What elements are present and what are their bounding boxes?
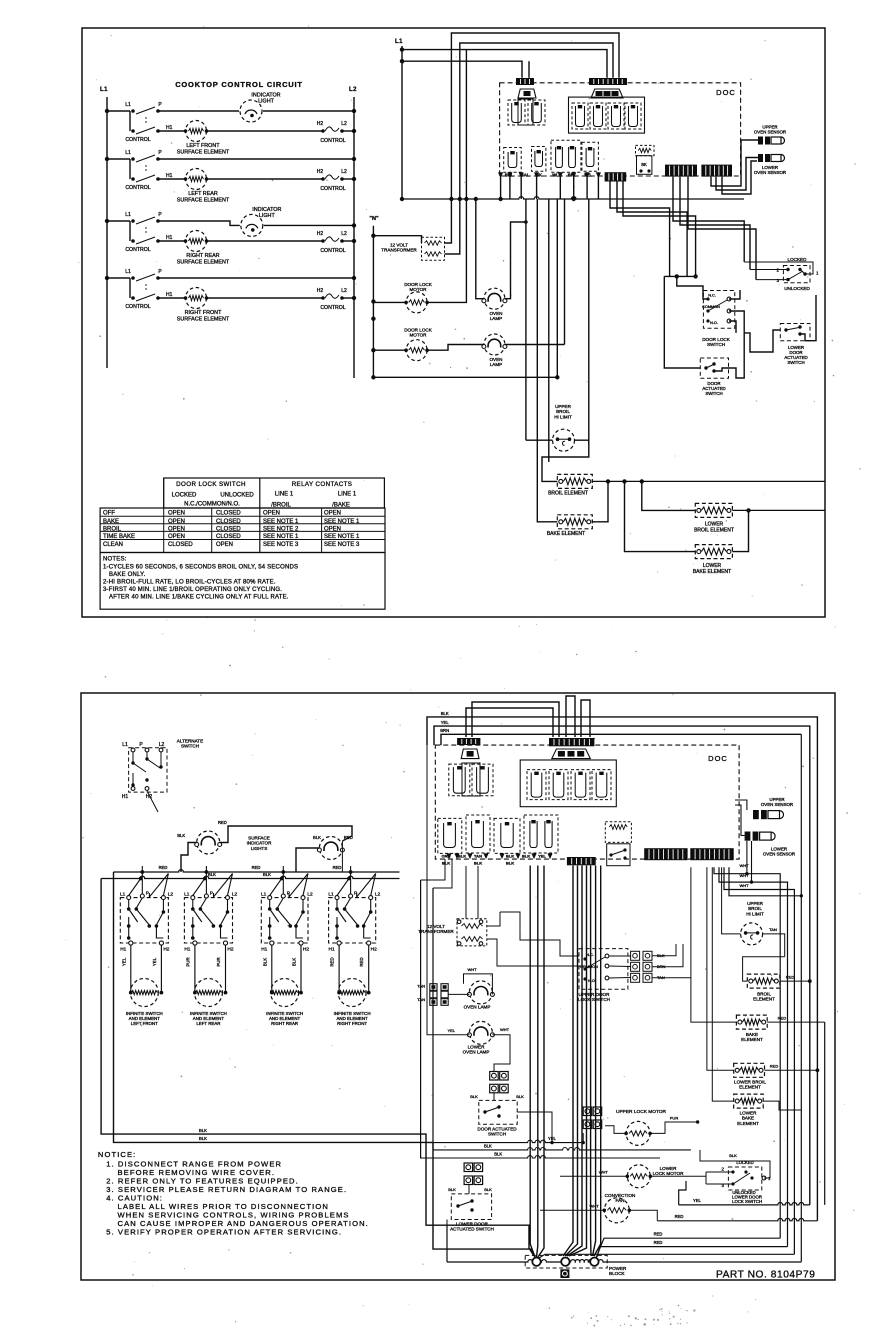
- svg-text:SWITCH: SWITCH: [787, 360, 804, 365]
- svg-text:DOC: DOC: [716, 88, 736, 97]
- svg-text:L1: L1: [100, 87, 108, 93]
- svg-text:ELEMENT: ELEMENT: [741, 1037, 763, 1042]
- svg-text:CONTROL: CONTROL: [125, 137, 150, 143]
- wire: upper lock switch strip outputs: [652, 944, 676, 956]
- svg-text:WHT: WHT: [467, 967, 477, 972]
- svg-text:P: P: [139, 742, 143, 748]
- svg-text:LEFT FRONT: LEFT FRONT: [131, 1021, 158, 1026]
- svg-text:H2: H2: [317, 231, 324, 237]
- wire: lower N return bus: [373, 376, 557, 378]
- lower oven lamp: [469, 1021, 492, 1044]
- wire: hi-limit leads (bottom): [722, 867, 741, 934]
- oven lamp 2: [484, 334, 505, 355]
- svg-text:BLK: BLK: [208, 872, 216, 877]
- wire: lower oven lamp leads: [427, 745, 469, 1035]
- wire: left rail 1 down: [420, 880, 422, 1158]
- terminal pairs (door actuated switch): [490, 1072, 499, 1081]
- svg-text:YEL: YEL: [693, 1198, 702, 1203]
- lower broil element: [695, 503, 732, 517]
- svg-text:SWITCH: SWITCH: [488, 1132, 506, 1137]
- svg-text:BLK: BLK: [729, 1153, 737, 1158]
- wire: hi-limit to broil element: [542, 444, 589, 481]
- svg-text:TAN: TAN: [474, 854, 482, 859]
- svg-text:INDICATOR: INDICATOR: [251, 93, 280, 99]
- surface control switch S4 (left): [105, 276, 109, 280]
- svg-text:YEL: YEL: [152, 957, 157, 966]
- svg-text:H2: H2: [371, 947, 377, 953]
- svg-text:LINE 1: LINE 1: [275, 492, 294, 498]
- wire: BLK feed (bottom panel top): [427, 717, 817, 1221]
- power block (dashed): [525, 1255, 607, 1268]
- svg-text:SEE NOTE 2: SEE NOTE 2: [263, 526, 299, 532]
- connector (right of DOC, dashed): [636, 145, 655, 155]
- svg-text:P: P: [158, 269, 162, 275]
- svg-text:PUR: PUR: [670, 1116, 679, 1121]
- wire: left indicator leads: [181, 843, 197, 873]
- svg-text:CONTROL: CONTROL: [125, 185, 150, 191]
- surface element E1: [185, 120, 207, 142]
- upper broil hi-limit (bottom): [741, 923, 763, 945]
- wire: centre bundle to power block terminal 2: [563, 866, 573, 1257]
- svg-text:BLK: BLK: [313, 835, 321, 840]
- svg-text:H1: H1: [166, 173, 173, 179]
- connector (DOC top centre): [549, 738, 594, 746]
- transformer T2: [457, 919, 487, 946]
- wire: N* to M1: [373, 301, 406, 303]
- svg-text:L2: L2: [375, 892, 381, 898]
- wire: DOC outputs descending (long verticals): [525, 199, 527, 440]
- wire: L1 to BK connector (line 2): [402, 61, 522, 78]
- svg-text:BROIL ELEMENT: BROIL ELEMENT: [694, 527, 734, 533]
- wire L1 bus (cooktop): [106, 97, 108, 368]
- connector BK (top of DOC): [516, 78, 534, 85]
- svg-text:BLK: BLK: [474, 861, 482, 866]
- power block terminal 2: [561, 1258, 569, 1266]
- svg-text:SWITCH: SWITCH: [707, 342, 725, 347]
- svg-text:BROIL ELEMENT: BROIL ELEMENT: [548, 491, 588, 497]
- svg-text:L2: L2: [307, 892, 313, 898]
- relay K1 (clean/lock relay): [508, 100, 525, 125]
- wire: YEL bus (to upper lock motor): [427, 1140, 583, 1142]
- table main grid: [100, 508, 385, 553]
- svg-text:HI LIMIT: HI LIMIT: [746, 911, 764, 916]
- wire: v3 return to terminal 1: [539, 1254, 794, 1258]
- svg-text:BAKE: BAKE: [103, 519, 119, 525]
- wire: upper lock motor leads: [582, 1133, 584, 1143]
- svg-text:LOCKED: LOCKED: [788, 257, 808, 262]
- wire: lower bake return: [732, 510, 748, 551]
- wire: nested feed top 1: [451, 33, 619, 199]
- svg-text:L2: L2: [168, 892, 174, 898]
- svg-text:RED: RED: [770, 1064, 779, 1069]
- svg-text:BLK: BLK: [484, 1187, 492, 1192]
- wire: door actuated switch out: [714, 368, 729, 371]
- svg-text:P: P: [146, 891, 149, 897]
- wire: lock position leads: [756, 279, 788, 281]
- wire: switch S2 P-contact to L2 (row 2 top line): [158, 158, 354, 160]
- svg-text:"N": "N": [369, 216, 379, 222]
- svg-text:FAN: FAN: [616, 1198, 625, 1203]
- svg-text:LAMP: LAMP: [490, 316, 503, 321]
- relay row terminal feet (bottom): [446, 853, 451, 859]
- svg-text:BAKE ELEMENT: BAKE ELEMENT: [547, 531, 585, 537]
- svg-text:TAN: TAN: [769, 927, 777, 932]
- svg-text:H1: H1: [329, 947, 335, 953]
- svg-text:BLK: BLK: [177, 833, 185, 838]
- svg-text:WHT: WHT: [739, 883, 749, 888]
- svg-text:N.O.: N.O.: [710, 321, 718, 325]
- wire: IS3 diagonal feeds: [270, 879, 282, 896]
- wire: oven lamp leads (bottom upper): [449, 993, 470, 995]
- wire: N* to transformer: [373, 236, 421, 243]
- wire: IS3 element leads: [271, 945, 273, 993]
- wire: switch S1 P-contact to L2 (row 1 top line): [158, 110, 354, 112]
- svg-text:BAKE ONLY.: BAKE ONLY.: [109, 572, 146, 578]
- svg-text:BLK: BLK: [484, 1144, 492, 1149]
- svg-text:N.O.: N.O.: [588, 979, 596, 983]
- lower lock motor: [627, 1165, 650, 1188]
- surface control switch S3 (left): [105, 219, 109, 223]
- svg-text:BLK: BLK: [199, 1136, 207, 1141]
- wire: switch S3 P-contact to L2 (row 3 top line): [158, 221, 354, 225]
- svg-text:H2: H2: [317, 121, 324, 127]
- svg-text:BROIL: BROIL: [103, 526, 122, 532]
- surface element SE3: [271, 979, 299, 1007]
- panel border (top diagram): [82, 28, 825, 617]
- svg-text:INDICATOR: INDICATOR: [252, 207, 281, 213]
- wire: top nested feeds to connectors: [466, 708, 553, 737]
- svg-text:OVEN LAMP: OVEN LAMP: [463, 1050, 490, 1055]
- svg-text:CLEAN: CLEAN: [103, 542, 123, 548]
- wire: IS1 element leads: [130, 945, 132, 993]
- infinite switch IS4: [329, 898, 376, 943]
- wire: bake return down: [824, 1022, 826, 1205]
- svg-text:SURFACE ELEMENT: SURFACE ELEMENT: [177, 259, 230, 265]
- surface control switch S2 (left): [105, 157, 109, 161]
- wire: lock loop left: [664, 276, 700, 368]
- wire: YEL feed: [434, 726, 810, 1205]
- svg-text:OVEN SENSOR: OVEN SENSOR: [754, 130, 786, 135]
- svg-text:L2: L2: [159, 742, 165, 748]
- svg-text:ACTUATED SWITCH: ACTUATED SWITCH: [450, 1227, 494, 1232]
- infinite switch IS3: [261, 898, 308, 943]
- svg-text:PUR: PUR: [216, 957, 221, 966]
- svg-text:YEL: YEL: [441, 720, 450, 725]
- wire: WHT returns to right bundle: [714, 867, 780, 1238]
- svg-text:OPEN: OPEN: [168, 519, 185, 525]
- svg-text:CLOSED: CLOSED: [216, 526, 241, 532]
- svg-text:BAKE ELEMENT: BAKE ELEMENT: [693, 569, 731, 575]
- svg-text:L1: L1: [125, 269, 131, 275]
- junction: broil return on v-yel: [808, 979, 812, 983]
- svg-text:RED: RED: [778, 1016, 787, 1021]
- svg-text:LOCK SWITCH: LOCK SWITCH: [578, 997, 610, 1002]
- svg-text:OPEN: OPEN: [263, 511, 280, 517]
- svg-text:CLOSED: CLOSED: [216, 519, 241, 525]
- svg-text:3: 3: [776, 278, 779, 283]
- svg-text:P: P: [158, 102, 162, 108]
- wire: hi-limit left lead: [526, 439, 553, 441]
- connector P2 (top of DOC): [589, 78, 627, 85]
- svg-text:L2: L2: [341, 288, 347, 294]
- svg-text:RED: RED: [654, 1232, 663, 1237]
- relay contact block 4: [582, 142, 599, 171]
- svg-text:H1: H1: [166, 292, 173, 298]
- svg-text:TAN: TAN: [417, 997, 425, 1002]
- wire: alternate switch drop: [147, 791, 158, 812]
- svg-text:ELEMENT: ELEMENT: [737, 1121, 759, 1126]
- wire: element line row 3: [158, 240, 322, 242]
- wire: door actuated switch hookup: [494, 1056, 510, 1072]
- transformer T1: [422, 237, 445, 260]
- svg-text:LIGHT: LIGHT: [258, 99, 275, 105]
- svg-text:OPEN: OPEN: [324, 526, 341, 532]
- infinite switch IS2: [184, 898, 232, 943]
- indicator light (rows 1-2): [239, 99, 263, 123]
- svg-text:N.C./COMMON/N.O.: N.C./COMMON/N.O.: [184, 502, 240, 508]
- svg-text:ELEMENT: ELEMENT: [739, 1085, 761, 1090]
- wire: lock switch wiring: [677, 276, 708, 299]
- wire: IS2 element leads: [194, 945, 196, 993]
- svg-text:NOTES:: NOTES:: [103, 557, 127, 563]
- surface element SE1: [130, 979, 158, 1007]
- svg-text:L2: L2: [341, 231, 347, 237]
- wire: right indicator leads: [319, 826, 352, 841]
- relay pair (DOC left): [449, 764, 470, 796]
- svg-text:SURFACE ELEMENT: SURFACE ELEMENT: [177, 316, 230, 322]
- wire: hi-limit right lead: [575, 440, 589, 444]
- wire: L1 feed line 1: [402, 49, 466, 51]
- connector CLOCK: [605, 172, 627, 181]
- wire: BRN feed: [441, 734, 801, 745]
- svg-text:BLK: BLK: [494, 1152, 502, 1157]
- wire: lower lock switch to bus: [700, 1150, 770, 1178]
- svg-text:RIGHT FRONT: RIGHT FRONT: [337, 1021, 367, 1026]
- connector (dashed, right of row): [605, 822, 631, 843]
- svg-text:BLK: BLK: [199, 1128, 207, 1133]
- svg-text:RIGHT REAR: RIGHT REAR: [271, 1021, 298, 1026]
- connector strip P6 (black): [690, 848, 733, 860]
- lower bake element (bottom): [734, 1094, 764, 1108]
- svg-text:WHT: WHT: [590, 1204, 600, 1209]
- svg-text:BLK: BLK: [442, 861, 450, 866]
- svg-text:UPPER LOCK MOTOR: UPPER LOCK MOTOR: [616, 1109, 667, 1115]
- wire: transformer secondary (bottom): [487, 912, 500, 926]
- svg-text:RED: RED: [359, 957, 364, 966]
- wire: oven lamp 1 leads: [476, 199, 484, 299]
- svg-text:TRANSFORMER: TRANSFORMER: [381, 248, 417, 253]
- svg-text:OPEN: OPEN: [168, 511, 185, 517]
- svg-text:RIGHT REAR: RIGHT REAR: [186, 253, 219, 259]
- surface indicator light (right): [319, 837, 342, 860]
- relay contact block 1: [504, 148, 522, 173]
- svg-text:UNLOCKED: UNLOCKED: [220, 493, 254, 499]
- convection fan motor: [604, 1198, 629, 1223]
- svg-text:BLK: BLK: [506, 861, 514, 866]
- door actuated switch (bottom): [479, 1100, 517, 1124]
- upper oven lamp (bottom): [469, 981, 492, 1004]
- wire: bottom long bus (v4): [447, 1260, 801, 1262]
- svg-text:BLK: BLK: [516, 1094, 524, 1099]
- svg-text:SEE NOTE 3: SEE NOTE 3: [324, 542, 360, 548]
- wire: BLK bus 3: [420, 1156, 660, 1158]
- svg-text:BLK: BLK: [522, 854, 530, 859]
- terminal pairs (lower door actuated switch): [464, 1163, 473, 1172]
- wire: hi-limit to broil element (bottom): [743, 957, 785, 981]
- svg-text:LIGHTS: LIGHTS: [251, 846, 268, 851]
- upper lock motor: [626, 1121, 650, 1145]
- svg-text:SEE NOTE 1: SEE NOTE 1: [263, 519, 299, 525]
- svg-text:SWITCH: SWITCH: [181, 744, 199, 749]
- wire: convection fan leads: [540, 1209, 604, 1211]
- wire: lower broil feed (bottom): [707, 867, 734, 1070]
- svg-text:BLK: BLK: [262, 958, 267, 966]
- svg-text:LEFT REAR: LEFT REAR: [196, 1021, 220, 1026]
- wire: main N bus (y=199): [402, 197, 744, 199]
- wire: transformer feeds (bottom): [465, 866, 467, 919]
- svg-text:LIGHT: LIGHT: [259, 213, 276, 219]
- svg-text:LOCKED: LOCKED: [172, 493, 197, 499]
- svg-text:SEE NOTE 3: SEE NOTE 3: [263, 542, 299, 548]
- wire: element line row 1: [158, 130, 322, 132]
- svg-text:2: 2: [722, 1167, 725, 1172]
- svg-text:CONTROL: CONTROL: [320, 248, 345, 254]
- wire: element line row 2: [158, 178, 322, 180]
- svg-text:WHT: WHT: [500, 1027, 510, 1032]
- table notes box: [100, 553, 385, 610]
- svg-text:L2: L2: [349, 87, 357, 93]
- bake element (bottom): [736, 1015, 767, 1029]
- svg-text:H1: H1: [166, 125, 173, 131]
- svg-text:COOKTOP CONTROL CIRCUIT: COOKTOP CONTROL CIRCUIT: [175, 80, 303, 89]
- infinite switch IS1: [120, 898, 168, 943]
- door lock motor M2: [406, 340, 427, 361]
- svg-text:OPEN: OPEN: [168, 534, 185, 540]
- svg-text:CONTROL: CONTROL: [320, 305, 345, 311]
- svg-text:SEE NOTE 1: SEE NOTE 1: [324, 519, 360, 525]
- wire: bake element feed (bottom): [691, 867, 737, 1022]
- svg-text:PART NO. 8104P79: PART NO. 8104P79: [716, 1270, 815, 1281]
- svg-text:H2: H2: [227, 947, 233, 953]
- relay bank (DOC centre): [520, 760, 616, 807]
- svg-text:YEL: YEL: [538, 854, 546, 859]
- wire: lower lock motor leads: [560, 1175, 627, 1177]
- surface control switch S1 (left): [105, 109, 109, 113]
- svg-text:LEFT REAR: LEFT REAR: [188, 191, 218, 197]
- wire: switch S4 P-contact to L2 (row 4 top line): [158, 277, 354, 279]
- svg-text:OFF: OFF: [103, 511, 115, 517]
- wire: lower lock switch leads: [706, 1171, 733, 1173]
- wire L2 bus (cooktop): [353, 97, 355, 378]
- svg-text:L2: L2: [232, 892, 238, 898]
- svg-text:PUR: PUR: [185, 957, 190, 966]
- wire: centre bundle to power block terminal 1: [530, 866, 535, 1258]
- svg-text:TRANSFORMER: TRANSFORMER: [418, 929, 454, 934]
- svg-text:L1: L1: [125, 102, 131, 108]
- svg-text:RELAY CONTACTS: RELAY CONTACTS: [292, 481, 353, 488]
- svg-text:NOTICE:: NOTICE:: [98, 1150, 136, 1159]
- relay bank (bake/broil relays): [569, 97, 645, 133]
- wire: BRN long vertical (v4): [800, 734, 802, 1262]
- svg-text:TAN: TAN: [417, 984, 425, 989]
- svg-text:1: 1: [816, 271, 819, 276]
- svg-text:LEFT FRONT: LEFT FRONT: [186, 143, 220, 149]
- wire: oven lamp 2 leads: [460, 344, 484, 346]
- surface element E2: [185, 168, 207, 190]
- wire: RED bus (cooktop feed): [114, 870, 400, 872]
- wire: RED bus to terminal 3 (from v1): [596, 1238, 780, 1258]
- svg-text:CLOSED: CLOSED: [216, 511, 241, 517]
- terminal columns (upper oven lamp): [430, 984, 437, 991]
- svg-text:CLOSED: CLOSED: [216, 534, 241, 540]
- svg-text:BRN: BRN: [440, 728, 449, 733]
- svg-text:OVEN LAMP: OVEN LAMP: [464, 1005, 491, 1010]
- power block terminal 3: [590, 1258, 598, 1266]
- svg-text:N.C.: N.C.: [708, 294, 716, 298]
- svg-text:H2: H2: [163, 947, 169, 953]
- wire: M2 out: [427, 345, 460, 351]
- wire: centre bundle to power block terminal 3: [590, 866, 592, 1257]
- svg-text:OPEN: OPEN: [168, 526, 185, 532]
- svg-text:OVEN SENSOR: OVEN SENSOR: [761, 802, 793, 807]
- svg-text:RIGHT FRONT: RIGHT FRONT: [185, 310, 222, 316]
- wire: LINE1 strip down to lock circuit: [673, 177, 744, 262]
- svg-text:L1: L1: [125, 150, 131, 156]
- svg-text:5. VERIFY PROPER OPERATION AFT: 5. VERIFY PROPER OPERATION AFTER SERVICI…: [106, 1227, 342, 1236]
- svg-text:BLK: BLK: [506, 854, 514, 859]
- svg-text:L1: L1: [120, 892, 126, 898]
- svg-text:CLOSED: CLOSED: [168, 542, 193, 548]
- wire: DOC outputs to left rail 1: [421, 859, 445, 880]
- wire: broil element output bus: [592, 480, 825, 482]
- svg-text:L1: L1: [395, 39, 403, 45]
- wire: sensor feeds (bottom): [735, 800, 747, 810]
- power block ground lug: [560, 1269, 569, 1278]
- svg-text:H2: H2: [303, 947, 309, 953]
- wire: lower bake feed: [625, 481, 696, 551]
- svg-text:LOCK MOTOR: LOCK MOTOR: [653, 1171, 684, 1176]
- svg-text:YEL: YEL: [548, 1136, 557, 1141]
- svg-text:RED: RED: [654, 1240, 663, 1245]
- upper broil hi-limit: [553, 429, 575, 451]
- wire: sensor feeds from LINE2 strip: [711, 140, 758, 186]
- door lock switch (dashed box): [703, 291, 734, 329]
- svg-text:LOCK SWITCH: LOCK SWITCH: [732, 1199, 762, 1204]
- svg-text:RED: RED: [159, 865, 168, 870]
- terminal strips (right of upper lock switch): [631, 951, 640, 960]
- svg-text:BLK: BLK: [448, 1187, 456, 1192]
- svg-text:OVEN SENSOR: OVEN SENSOR: [754, 170, 786, 175]
- svg-text:OVEN SENSOR: OVEN SENSOR: [763, 852, 795, 857]
- svg-text:P: P: [158, 150, 162, 156]
- svg-text:ELEMENT: ELEMENT: [753, 997, 775, 1002]
- relay contact block 3 (double): [551, 140, 581, 172]
- bake element: [557, 515, 592, 529]
- svg-text:DOC: DOC: [708, 754, 728, 763]
- wire: left rail 2 down: [432, 888, 434, 1150]
- svg-text:LAMP: LAMP: [490, 362, 503, 367]
- lower broil element (bottom): [734, 1063, 765, 1077]
- svg-text:WHT: WHT: [739, 863, 749, 868]
- surface element E4: [185, 287, 207, 309]
- wire: relay outputs down to N bus: [500, 172, 502, 199]
- lock position switch (locked/unlocked): [783, 266, 810, 283]
- wire: bake element return: [767, 1021, 825, 1023]
- wire: broil element return: [780, 980, 810, 982]
- svg-text:L1: L1: [125, 212, 131, 218]
- surface indicator light (left): [197, 831, 220, 854]
- lower door actuated switch: [780, 324, 810, 341]
